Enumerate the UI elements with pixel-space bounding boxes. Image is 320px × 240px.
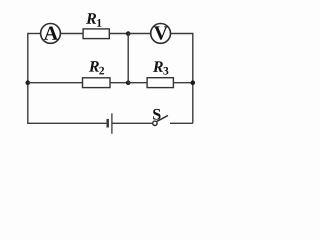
node N (junction dot middle) <box>126 80 131 85</box>
node M (junction dot top) <box>126 31 131 36</box>
wire left node to R2 <box>28 82 83 84</box>
wire node N to R3 <box>128 82 147 84</box>
wire node M to voltmeter <box>128 33 150 35</box>
battery cell (long thin positive plate) <box>111 113 113 134</box>
resistor R2 <box>83 78 111 88</box>
node right (junction dot on right vertical) <box>191 80 196 85</box>
wire switch to bottom-right corner <box>170 122 193 124</box>
resistor R1 <box>83 29 109 39</box>
resistor R3 <box>147 78 173 88</box>
wire ammeter to R1 <box>61 33 83 35</box>
wire R2 to node N <box>110 82 128 84</box>
switch S (pivot circle and blade) <box>153 116 168 126</box>
ammeter A <box>41 24 61 44</box>
wire top-left segment <box>28 33 40 35</box>
wire left vertical <box>27 33 29 124</box>
voltmeter V <box>151 24 171 44</box>
node left (junction dot on left vertical) <box>26 80 31 85</box>
wire voltmeter to top-right corner <box>171 33 193 35</box>
label R3 <box>153 61 168 74</box>
wire bottom-left to battery <box>28 122 107 124</box>
wire middle vertical (node M to node N) <box>127 34 129 83</box>
label R1 <box>86 13 101 26</box>
wire battery to switch <box>113 122 153 124</box>
wire R1 to node M <box>109 33 128 35</box>
wire R3 to right vertical <box>173 82 192 84</box>
wire right vertical <box>192 33 194 124</box>
battery cell (short thick negative plate) <box>106 119 109 128</box>
label R2 <box>89 61 104 74</box>
label S <box>153 109 160 120</box>
